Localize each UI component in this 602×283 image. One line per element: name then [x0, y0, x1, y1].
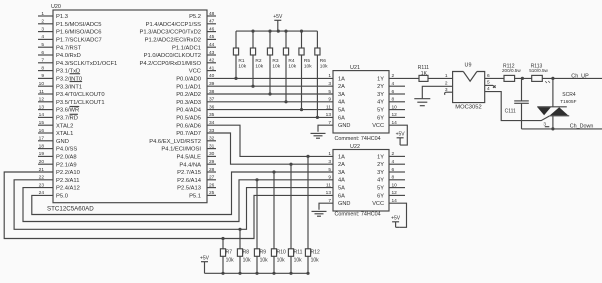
svg-text:P4.0/RxD: P4.0/RxD [56, 53, 81, 59]
svg-text:T1605F: T1605F [560, 99, 576, 104]
optocoupler U9 MOC3052 [453, 72, 485, 103]
svg-text:P5.1: P5.1 [189, 194, 201, 200]
U20 left pin numbers 1-24 [39, 11, 45, 196]
svg-text:P0.2/AD2: P0.2/AD2 [176, 92, 201, 98]
svg-text:6A: 6A [338, 115, 345, 121]
svg-text:U9: U9 [465, 62, 472, 68]
svg-text:U20: U20 [51, 4, 61, 10]
U22 input pin numbers [326, 151, 332, 196]
U9 pin 5 number [487, 80, 490, 86]
wire U20 pin 39 to U21 input 2A [207, 85, 333, 87]
svg-text:P1.6/MISO/ADC6: P1.6/MISO/ADC6 [56, 30, 101, 36]
svg-text:11: 11 [39, 89, 44, 95]
svg-text:1Y: 1Y [377, 76, 384, 82]
svg-text:26: 26 [209, 182, 215, 188]
svg-text:2: 2 [445, 81, 448, 87]
svg-text:10k: 10k [294, 258, 303, 264]
svg-text:P0.5/AD5: P0.5/AD5 [176, 116, 201, 122]
wire bottom +5V rail [205, 272, 309, 274]
svg-text:10: 10 [39, 81, 45, 87]
svg-text:3Y: 3Y [377, 92, 384, 98]
svg-text:3A: 3A [338, 170, 345, 176]
svg-text:P4.7/RST: P4.7/RST [56, 45, 82, 51]
svg-text:6: 6 [41, 50, 44, 56]
wire U20 pin 38 to U21 input 3A [207, 93, 333, 95]
svg-text:43: 43 [209, 50, 215, 56]
svg-text:R8: R8 [243, 250, 250, 256]
svg-text:P1.5/MOSI/ADC5: P1.5/MOSI/ADC5 [56, 22, 101, 28]
svg-text:1K: 1K [421, 71, 428, 77]
junction R12 to +5V rail [306, 272, 309, 275]
resistor R112 200/0.5w [502, 63, 521, 81]
svg-text:P0.0/AD0: P0.0/AD0 [176, 77, 201, 83]
+5V supply symbol at U22 [391, 216, 401, 228]
U9 pin 2 number [445, 81, 448, 87]
U21 input labels 1A-6A [338, 76, 345, 121]
svg-text:R9: R9 [260, 250, 267, 256]
junction R3 to bus [268, 92, 271, 95]
svg-text:18: 18 [39, 143, 45, 149]
svg-text:P4.5/ALE: P4.5/ALE [177, 155, 202, 161]
svg-text:P2.4/A12: P2.4/A12 [56, 186, 80, 192]
triac gate pin 3 label [543, 121, 546, 126]
svg-text:P4.6/EX_LVD/RST2: P4.6/EX_LVD/RST2 [149, 139, 201, 145]
resistor R11 10k [288, 164, 302, 273]
svg-text:10k: 10k [226, 258, 235, 264]
ground symbol U22 [312, 211, 327, 216]
svg-text:R4: R4 [288, 58, 294, 64]
svg-text:4: 4 [392, 159, 395, 165]
U20 right pin name labels [139, 14, 201, 199]
svg-text:20: 20 [39, 159, 45, 165]
svg-text:13: 13 [39, 104, 45, 110]
svg-text:P0.3/AD3: P0.3/AD3 [176, 100, 201, 106]
net label Ch_Down [570, 124, 594, 130]
svg-text:3: 3 [328, 81, 331, 87]
wire R112 to R113 [515, 77, 532, 79]
U9 pin 3 number [445, 87, 448, 93]
junction C111 tap [521, 77, 524, 80]
svg-text:P2.3/A11: P2.3/A11 [56, 178, 79, 184]
polarity dash near triac [545, 126, 550, 128]
svg-text:27: 27 [209, 175, 215, 181]
junction R7 on bus [221, 237, 224, 240]
svg-text:5: 5 [41, 42, 44, 48]
svg-text:P0.4/AD4: P0.4/AD4 [176, 108, 202, 114]
svg-text:6A: 6A [338, 193, 345, 199]
U9 reference designator [465, 62, 472, 68]
U21 GND pin 7 [328, 120, 350, 129]
U21 output labels 1Y-6Y [377, 76, 384, 121]
resistor R3 10k pull-up [267, 31, 280, 94]
svg-text:5: 5 [328, 167, 331, 173]
svg-text:2A: 2A [338, 162, 345, 168]
svg-text:11: 11 [326, 104, 331, 110]
svg-text:P1.2/ADC2/ECI/RxD2: P1.2/ADC2/ECI/RxD2 [145, 38, 201, 44]
U20 reference designator [51, 4, 61, 10]
svg-text:P1.0/ADC0/CLKOUT2: P1.0/ADC0/CLKOUT2 [144, 53, 201, 59]
U21 comment label [335, 136, 381, 142]
svg-text:P4.4/NA: P4.4/NA [179, 162, 201, 168]
resistor R6 10k pull-up [315, 31, 328, 117]
U20 left pin stub wires [38, 16, 53, 164]
svg-text:4Y: 4Y [377, 100, 384, 106]
svg-text:5: 5 [328, 89, 331, 95]
svg-text:P3.3/INT1: P3.3/INT1 [56, 84, 82, 90]
svg-text:44: 44 [209, 42, 215, 48]
wire U21 VCC to +5V [389, 125, 407, 145]
svg-text:47: 47 [209, 19, 215, 25]
U22 reference designator [350, 144, 360, 150]
svg-text:2: 2 [392, 151, 395, 157]
wire U21 output 1Y to R111 [389, 77, 419, 79]
svg-text:8: 8 [41, 65, 44, 71]
svg-text:P4.2/CCP0/RxD1/MISO: P4.2/CCP0/RxD1/MISO [139, 61, 201, 67]
svg-text:10k: 10k [311, 258, 320, 264]
svg-text:30: 30 [209, 151, 215, 157]
svg-text:P2.6/A14: P2.6/A14 [177, 178, 202, 184]
svg-text:1: 1 [328, 73, 331, 79]
svg-text:1: 1 [445, 73, 448, 79]
svg-text:2Y: 2Y [377, 84, 384, 90]
svg-text:P1.7/SCLK/ADC7: P1.7/SCLK/ADC7 [56, 38, 102, 44]
svg-text:R11: R11 [294, 250, 303, 256]
junction R10 on U22 3A net [272, 170, 275, 173]
svg-text:2: 2 [41, 19, 44, 25]
svg-text:16: 16 [39, 128, 45, 134]
U9 pin 4 number [487, 86, 490, 92]
svg-text:P3.4/T0/CLKOUT0: P3.4/T0/CLKOUT0 [56, 92, 105, 98]
svg-text:5Y: 5Y [377, 108, 384, 114]
svg-text:10k: 10k [277, 258, 286, 264]
U22 output labels 1Y-6Y [377, 154, 384, 199]
wire triac MT1 to bottom rail [552, 116, 554, 129]
svg-text:XTAL1: XTAL1 [56, 131, 73, 137]
overline marks WR RD [70, 107, 80, 115]
resistor R5 10k pull-up [299, 31, 312, 110]
svg-text:10k: 10k [255, 63, 263, 69]
wire U20 pin 36 to U21 input 5A [207, 109, 333, 111]
U20 value label STC12C5A60AD [47, 206, 94, 213]
+5V supply symbol top [273, 14, 283, 31]
svg-text:41: 41 [209, 65, 215, 71]
svg-text:SCR4: SCR4 [562, 92, 576, 98]
svg-text:3: 3 [328, 159, 331, 165]
svg-text:4Y: 4Y [377, 178, 384, 184]
wire U20 pin 22 routed to U22 input [14, 180, 333, 230]
svg-text:1: 1 [328, 151, 331, 157]
U22 GND pin 7 [328, 198, 350, 207]
U22 comment label [335, 212, 381, 218]
svg-text:3A: 3A [338, 92, 345, 98]
svg-text:C111: C111 [505, 109, 516, 115]
svg-text:8: 8 [392, 175, 395, 181]
U9 pin 6 number [487, 73, 490, 79]
svg-text:P1.3: P1.3 [56, 14, 68, 20]
wire U20 pin 24 routed to U22 input [32, 172, 333, 215]
junction triac MT1 on Ch_Down line [551, 127, 554, 130]
svg-text:14: 14 [39, 112, 45, 118]
svg-text:12: 12 [39, 97, 45, 103]
svg-text:13: 13 [326, 190, 332, 196]
svg-text:48: 48 [209, 11, 215, 17]
svg-text:2A: 2A [338, 84, 345, 90]
svg-text:4: 4 [41, 34, 44, 40]
capacitor C111 [505, 78, 529, 128]
svg-text:7: 7 [41, 58, 44, 64]
+5V supply symbol at U21 [396, 132, 406, 146]
svg-text:12: 12 [392, 190, 398, 196]
svg-text:P0.6/AD6: P0.6/AD6 [176, 123, 201, 129]
microcontroller U20 STC12C5A60AD [53, 10, 207, 203]
ground symbol U21 [311, 133, 326, 138]
svg-text:10: 10 [392, 104, 398, 110]
svg-text:10k: 10k [243, 258, 252, 264]
svg-text:5: 5 [487, 80, 490, 86]
U22 output stub wires [389, 156, 405, 195]
wire U20 pin 34 to U22 input 1A [207, 125, 333, 156]
svg-text:P5.2: P5.2 [189, 14, 201, 20]
svg-text:10k: 10k [288, 63, 296, 69]
wire U20 pin 23 routed to U22 input [23, 180, 333, 222]
svg-text:9: 9 [41, 73, 44, 79]
svg-text:R12: R12 [311, 250, 320, 256]
svg-text:1A: 1A [338, 154, 345, 160]
svg-text:P1.3/ADC3/CCP0/TxD2: P1.3/ADC3/CCP0/TxD2 [139, 30, 201, 36]
svg-text:45: 45 [209, 34, 215, 40]
U21 reference designator [350, 65, 360, 71]
svg-text:U21: U21 [350, 65, 360, 71]
svg-text:5Y: 5Y [377, 186, 384, 192]
svg-text:GND: GND [338, 201, 350, 207]
svg-text:Ch_UP: Ch_UP [571, 73, 589, 79]
svg-text:MOC3052: MOC3052 [455, 104, 481, 110]
svg-text:42: 42 [209, 58, 215, 64]
wire U20 pin 37 to U21 input 4A [207, 101, 333, 103]
junction R8 to +5V rail [238, 272, 241, 275]
resistor R10 10k [271, 172, 286, 273]
active-low underline marks TxD INT0 [70, 74, 83, 82]
svg-text:P4.1/ECI/MOSI: P4.1/ECI/MOSI [161, 147, 201, 153]
wire +5V rail for R1-R6 [236, 30, 317, 32]
U21 output stub wires [389, 86, 405, 117]
svg-text:P3.5/T1/CLKOUT1: P3.5/T1/CLKOUT1 [56, 100, 105, 106]
junction triac top [551, 77, 554, 80]
svg-text:10: 10 [392, 182, 398, 188]
svg-text:P4.3/SCLK/TxD1/OCF1: P4.3/SCLK/TxD1/OCF1 [56, 61, 117, 67]
resistor R113 510/0.5w [529, 63, 548, 81]
junction R9 on U22 4A net [255, 178, 258, 181]
svg-text:R3: R3 [272, 58, 278, 64]
resistor R7 10k [220, 239, 234, 274]
svg-text:+5V: +5V [200, 255, 210, 261]
wire U21 GND to ground [318, 125, 333, 132]
svg-text:29: 29 [209, 159, 215, 165]
svg-text:10k: 10k [260, 258, 269, 264]
svg-text:R6: R6 [320, 58, 326, 64]
svg-text:XTAL2: XTAL2 [56, 123, 73, 129]
svg-text:5A: 5A [338, 108, 345, 114]
junction R5 to bus [300, 108, 303, 111]
svg-text:4: 4 [392, 81, 395, 87]
resistor R9 10k [254, 180, 268, 273]
U21 input pin numbers [326, 73, 332, 118]
svg-text:P0.1/AD1: P0.1/AD1 [176, 84, 201, 90]
resistor R4 10k pull-up [283, 31, 296, 102]
junction R1 to bus [234, 77, 237, 80]
svg-text:15: 15 [39, 120, 45, 126]
svg-text:46: 46 [209, 26, 215, 32]
svg-text:P3.6/WR: P3.6/WR [56, 108, 79, 114]
svg-text:Comment: 74HC04: Comment: 74HC04 [335, 212, 381, 218]
wire U9 pin 2 to ground [422, 86, 452, 98]
svg-text:GND: GND [338, 123, 350, 129]
svg-text:25: 25 [209, 190, 215, 196]
svg-text:P1.1/ADC1: P1.1/ADC1 [172, 45, 201, 51]
ground symbol U9 [414, 99, 430, 106]
resistor R1 10k pull-up [233, 31, 246, 78]
junction R12 on U22 1A net [306, 155, 309, 158]
svg-text:1: 1 [41, 11, 44, 17]
svg-text:R10: R10 [277, 250, 286, 256]
svg-text:12: 12 [392, 112, 398, 118]
svg-text:3Y: 3Y [377, 170, 384, 176]
U20 right pin stub wires [207, 16, 216, 195]
U22 VCC pin 14 [372, 198, 397, 207]
svg-text:2Y: 2Y [377, 162, 384, 168]
svg-text:R1: R1 [238, 58, 244, 64]
resistor R12 10k [305, 156, 320, 273]
resistor R111 1K [418, 65, 429, 82]
junction R11 on U22 2A net [289, 163, 292, 166]
junction R11 to +5V rail [289, 272, 292, 275]
junction R4 to bus [284, 100, 287, 103]
svg-text:28: 28 [209, 167, 215, 173]
resistor R2 10k pull-up [250, 31, 263, 86]
junction R9 to +5V rail [255, 272, 258, 275]
svg-text:10k: 10k [238, 63, 246, 69]
svg-text:5A: 5A [338, 186, 345, 192]
svg-text:VCC: VCC [189, 69, 201, 75]
svg-text:6: 6 [392, 167, 395, 173]
svg-text:Comment: 74HC04: Comment: 74HC04 [335, 136, 381, 142]
SCR4 reference designator [562, 92, 576, 98]
U21 output pin numbers [392, 73, 398, 118]
U9 pin 3 stub no-connect [445, 92, 453, 95]
svg-text:P1.4/ADC4/CCP1/SS: P1.4/ADC4/CCP1/SS [146, 22, 202, 28]
svg-text:VCC: VCC [372, 201, 384, 207]
+5V supply symbol bottom left [200, 255, 210, 273]
svg-text:19: 19 [39, 151, 45, 157]
svg-text:1Y: 1Y [377, 154, 384, 160]
svg-text:31: 31 [209, 143, 215, 149]
wire U20 pin 35 to U21 input 6A [207, 116, 333, 118]
svg-text:10k: 10k [272, 63, 280, 69]
svg-text:STC12C5A60AD: STC12C5A60AD [47, 206, 94, 213]
triac SCR4 T1605F [537, 107, 569, 116]
svg-text:4A: 4A [338, 178, 345, 184]
junction R6 to bus [316, 116, 319, 119]
resistor R8 10k [237, 229, 251, 273]
svg-text:6Y: 6Y [377, 115, 384, 121]
svg-text:32: 32 [209, 136, 215, 142]
svg-text:9: 9 [328, 175, 331, 181]
U9 pin 5 stub no-connect [485, 85, 496, 87]
svg-text:P2.7/A15: P2.7/A15 [177, 170, 201, 176]
svg-text:+5V: +5V [391, 216, 401, 222]
U9 value label MOC3052 [455, 104, 481, 110]
wire bottom Ch_Down line [522, 128, 602, 130]
svg-text:8: 8 [392, 97, 395, 103]
svg-text:6Y: 6Y [377, 193, 384, 199]
hex inverter U21 74HC04 [333, 71, 389, 133]
wire triac MT2 vertical [552, 78, 554, 106]
U22 output pin numbers [392, 151, 398, 196]
svg-text:4A: 4A [338, 100, 345, 106]
wire U20 pin 40 to U21 input 1A [207, 77, 333, 79]
svg-text:10k: 10k [320, 63, 328, 69]
svg-text:6: 6 [392, 89, 395, 95]
svg-text:510/0.5w: 510/0.5w [529, 68, 548, 73]
wire U22 VCC to +5V [389, 203, 407, 227]
junction R8 on bus [238, 228, 241, 231]
U21 VCC pin 14 [372, 120, 397, 129]
svg-text:+5V: +5V [396, 132, 406, 138]
svg-text:P5.0: P5.0 [56, 194, 68, 200]
SCR4 value label T1605F [560, 99, 576, 104]
svg-text:U22: U22 [350, 144, 360, 150]
svg-text:P4.0/SS: P4.0/SS [56, 147, 77, 153]
junction R10 to +5V rail [272, 272, 275, 275]
net label Ch_UP [571, 73, 589, 79]
svg-text:200/0.5w: 200/0.5w [502, 68, 521, 73]
svg-text:13: 13 [326, 112, 332, 118]
svg-text:GND: GND [56, 139, 69, 145]
U20 left pin name labels [56, 14, 117, 199]
wire U20 pin 33 to U22 input 2A [207, 133, 333, 164]
svg-text:17: 17 [39, 136, 45, 142]
svg-text:P2.1/A9: P2.1/A9 [56, 162, 77, 168]
svg-text:R7: R7 [226, 250, 233, 256]
no-connect tick after R113 [545, 81, 550, 83]
U22 input labels 1A-6A [338, 154, 345, 199]
U9 pin 1 number [445, 73, 448, 79]
junction R2 to bus [251, 85, 254, 88]
svg-text:9: 9 [328, 97, 331, 103]
junction R7 to +5V rail [221, 272, 224, 275]
U20 right pin numbers 48-25 [209, 11, 215, 196]
wire R113 to Ch_UP line [542, 77, 602, 79]
svg-text:P0.7/AD7: P0.7/AD7 [176, 131, 201, 137]
svg-text:VCC: VCC [372, 123, 384, 129]
svg-text:1A: 1A [338, 76, 345, 82]
wire U22 GND to ground [319, 203, 333, 210]
svg-text:R5: R5 [304, 58, 310, 64]
svg-text:3: 3 [543, 121, 546, 126]
wire U9 pin 4 to triac gate [485, 92, 550, 121]
svg-text:10k: 10k [304, 63, 312, 69]
hex inverter U22 74HC04 [333, 150, 389, 212]
wire U20 pin 21 routed to U22 input [4, 172, 333, 239]
svg-text:Ch_Down: Ch_Down [570, 124, 594, 130]
svg-text:P2.0/A8: P2.0/A8 [56, 155, 77, 161]
svg-text:P2.5/A13: P2.5/A13 [177, 186, 201, 192]
svg-text:11: 11 [326, 182, 331, 188]
junctions on +5V rail [251, 30, 303, 33]
wire U9 pin 6 to R112 [485, 77, 504, 79]
wire R111 to U9 pin 1 [428, 77, 453, 79]
svg-text:+5V: +5V [273, 14, 283, 20]
